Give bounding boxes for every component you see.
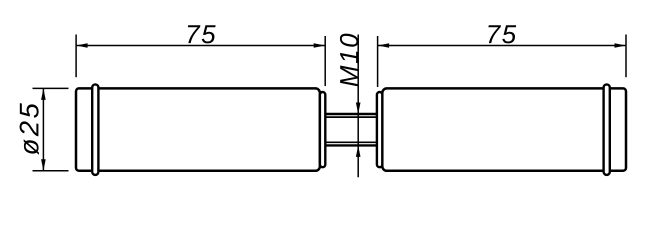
dia 25 arrowhead down — [41, 159, 46, 171]
right 75 dimension: right extension line — [625, 35, 627, 78]
dia 25 label — [20, 103, 39, 155]
left inner end plug — [320, 92, 325, 167]
M10 arrowhead up — [356, 145, 361, 157]
right outer collar ring — [604, 84, 610, 174]
right 75 dimension: left extension line — [377, 36, 379, 87]
right 75 dimension line — [378, 45, 626, 47]
left outer collar ring — [92, 84, 98, 174]
right inner end plug — [377, 92, 382, 167]
M10 dimension shaft — [357, 35, 359, 178]
left 75 label — [188, 25, 216, 43]
stud thread root line bottom — [325, 141, 378, 143]
right 75 arrowhead right — [615, 43, 627, 48]
left 75 arrowhead right — [314, 43, 326, 48]
right 75 label — [488, 25, 516, 43]
stud thread root line top — [325, 116, 378, 118]
dia 25 arrowhead up — [41, 88, 46, 100]
dia 25 dimension: bottom extension line — [33, 170, 69, 172]
left 75 arrowhead left — [76, 43, 88, 48]
left cylinder body — [76, 88, 320, 170]
stud outline (crest bottom edge) — [325, 144, 378, 146]
right cylinder body — [382, 88, 626, 170]
M10 arrowhead down — [356, 103, 361, 115]
M10 label — [340, 34, 358, 87]
left 75 dimension: right extension line — [324, 36, 326, 86]
left 75 dimension: left extension line — [75, 35, 77, 78]
dia 25 dimension line — [42, 88, 44, 170]
left 75 dimension line — [76, 45, 325, 47]
stud M10 threaded rod outline (crest top edge) — [325, 113, 378, 115]
dia 25 dimension: top extension line — [33, 87, 69, 89]
right 75 arrowhead left — [378, 43, 390, 48]
